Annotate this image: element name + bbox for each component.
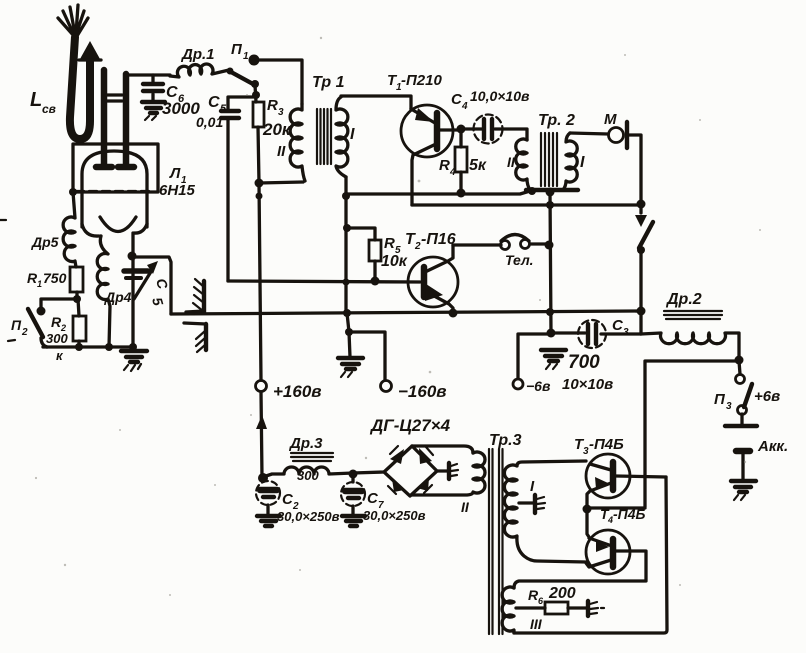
- svg-text:Тр 1: Тр 1: [312, 74, 345, 91]
- svg-text:300: 300: [46, 331, 68, 346]
- svg-text:700: 700: [568, 352, 600, 373]
- wire C5/R5 to Т2 base: [228, 281, 420, 282]
- wire R3 node to Тр1 primary bottom: [259, 182, 303, 183]
- node Т1 base / C4 / R4: [457, 125, 466, 134]
- ground (-160в branch): [338, 358, 363, 369]
- svg-text:II: II: [277, 143, 286, 160]
- svg-text:30,0×250в: 30,0×250в: [277, 509, 340, 524]
- chassis bar upper: [186, 279, 204, 312]
- wire pin to C6/Др1: [126, 73, 170, 76]
- svg-text:Др5: Др5: [31, 234, 59, 250]
- capacitor C6: [143, 75, 200, 118]
- svg-text:2: 2: [21, 327, 28, 338]
- capacitor C2 (electrolytic): [256, 481, 340, 524]
- wire node to -6в terminal: [518, 334, 551, 378]
- ground (cathode): [121, 351, 147, 362]
- microphone М: [604, 111, 641, 204]
- diode bridge ДГ-Ц27×4: [369, 416, 451, 496]
- svg-text:300: 300: [297, 468, 319, 483]
- svg-text:ДГ-Ц27×4: ДГ-Ц27×4: [369, 416, 451, 435]
- switch П1: [227, 41, 261, 99]
- svg-text:3: 3: [623, 327, 629, 338]
- node R3 bottom: [255, 179, 264, 188]
- svg-text:2: 2: [414, 241, 421, 252]
- svg-text:3000: 3000: [162, 99, 200, 118]
- svg-text:Др4: Др4: [104, 289, 132, 305]
- ground (C3 node): [541, 350, 566, 361]
- transistor Т4 П4Б: [586, 506, 646, 580]
- svg-text:30,0×250в: 30,0×250в: [363, 508, 426, 523]
- wire node down to Т4: [587, 509, 589, 537]
- svg-text:L: L: [30, 89, 42, 111]
- svg-text:5к: 5к: [469, 157, 487, 174]
- choke Др1: [170, 46, 229, 77]
- svg-text:1: 1: [243, 51, 249, 62]
- wire to -160в terminal: [349, 332, 385, 380]
- svg-text:R: R: [439, 157, 450, 174]
- ground (battery): [731, 481, 756, 492]
- svg-text:10к: 10к: [381, 253, 408, 270]
- wire C1 node to chassis rail: [133, 257, 171, 314]
- svg-text:10,0×10в: 10,0×10в: [470, 88, 530, 104]
- Тр3 winding I: [504, 461, 586, 562]
- svg-text:4: 4: [461, 101, 468, 112]
- wire bottom cathode rail: [43, 345, 134, 348]
- svg-text:I: I: [350, 126, 355, 143]
- resistor R2: [51, 299, 86, 347]
- svg-text:750: 750: [43, 270, 67, 286]
- chassis (bridge output): [437, 463, 458, 479]
- svg-text:М: М: [604, 111, 617, 128]
- svg-text:2: 2: [60, 323, 66, 333]
- svg-text:3: 3: [278, 107, 284, 118]
- switch П3: [714, 361, 780, 424]
- wire Т3 base feedback loop: [514, 477, 667, 633]
- svg-text:1: 1: [37, 279, 42, 289]
- node C7: [349, 470, 358, 479]
- svg-text:II: II: [507, 154, 516, 170]
- grid capacitor plates inside: [106, 95, 122, 101]
- svg-text:R: R: [267, 97, 278, 114]
- terminal -6в: [513, 379, 523, 389]
- wire Тр2 bottom down to C3 node: [550, 192, 551, 333]
- wire Др3 to bridge: [353, 472, 384, 473]
- svg-text:0,01: 0,01: [196, 114, 223, 130]
- wire Тр1 winding I bottom down: [344, 177, 347, 313]
- switch (М circuit tumbler): [635, 205, 653, 311]
- wire bridge top to Тр3 winding II: [412, 446, 473, 453]
- ground (C6): [142, 102, 165, 113]
- svg-text:Тр. 2: Тр. 2: [538, 112, 575, 129]
- svg-text:-П16: -П16: [421, 231, 456, 248]
- svg-text:3: 3: [726, 401, 732, 412]
- Тр2 bottom bar: [526, 188, 578, 192]
- wire to ground near -160в: [347, 313, 350, 357]
- svg-text:6Н15: 6Н15: [159, 182, 196, 199]
- resistor R6 200: [516, 585, 586, 614]
- svg-text:+6в: +6в: [754, 388, 780, 405]
- svg-text:R: R: [384, 235, 395, 252]
- wire switch node down to Др2: [639, 311, 642, 334]
- transistor Т3 П4Б: [574, 436, 666, 508]
- svg-text:−6в: −6в: [526, 378, 551, 394]
- svg-text:к: к: [56, 348, 64, 363]
- capacitor C4 (electrolytic): [451, 88, 530, 144]
- svg-text:-П210: -П210: [401, 72, 442, 89]
- resistor R3: [253, 97, 292, 160]
- svg-text:+160в: +160в: [273, 382, 322, 401]
- svg-text:П: П: [714, 391, 726, 408]
- transistor Т2 П16: [405, 231, 458, 313]
- choke Др3: [263, 435, 353, 483]
- choke Др2: [641, 291, 739, 358]
- transformer Тр3 core: [489, 432, 522, 634]
- svg-text:Акк.: Акк.: [757, 438, 788, 455]
- Тр2 winding II (left): [516, 139, 530, 190]
- capacitor C5: [196, 94, 256, 281]
- wire R1 to node: [75, 292, 78, 299]
- chassis bar lower: [184, 323, 206, 352]
- svg-text:-П4Б: -П4Б: [613, 506, 646, 522]
- wire Т4 base to winding III top: [514, 581, 646, 588]
- svg-text:10×10в: 10×10в: [562, 376, 613, 393]
- svg-text:Л: Л: [169, 165, 181, 182]
- wire Тр1/Тр2 bottom rail: [346, 191, 530, 194]
- svg-text:Др.3: Др.3: [288, 435, 323, 452]
- terminal -160в: [381, 381, 392, 392]
- wire +160в down to filter node with arrow: [261, 392, 262, 477]
- svg-text:II: II: [461, 499, 470, 515]
- svg-text:П: П: [231, 41, 243, 58]
- capacitor C3 (electrolytic): [551, 317, 641, 393]
- node Т3 emitter / Т4 collector: [583, 505, 592, 514]
- resistor R4: [439, 129, 487, 193]
- resistor R5: [347, 228, 408, 281]
- tube Л1 6Н15: [73, 70, 196, 236]
- stray mark left edge: [0, 220, 15, 341]
- Тр1 winding II (left): [290, 104, 305, 181]
- transistor Т1 П210: [387, 72, 458, 205]
- tube pin (anode): [96, 70, 112, 167]
- Тр3 winding III: [502, 587, 543, 633]
- svg-text:200: 200: [548, 585, 576, 602]
- chassis (Тр3 winding I centre tap): [519, 495, 545, 513]
- wire П1 to R3: [255, 85, 256, 102]
- node Т2 emitter: [449, 309, 458, 318]
- node chassis rail / Тр1 vertical: [343, 309, 351, 317]
- wire chassis rail (long horizontal): [171, 311, 641, 314]
- wire Тр2 winding I top to М: [570, 133, 608, 134]
- svg-text:20к: 20к: [262, 120, 292, 139]
- wire collector rail (Т1): [412, 203, 641, 206]
- svg-text:-П4Б: -П4Б: [589, 436, 624, 453]
- svg-text:Др.1: Др.1: [180, 46, 215, 63]
- transformer Тр2: [507, 112, 585, 197]
- ground (C2): [257, 516, 280, 526]
- svg-text:III: III: [530, 616, 543, 632]
- coil Lсв (magnetic antenna loop): [30, 37, 101, 139]
- Тр1 core: [317, 109, 331, 164]
- Тр2 winding I (right): [563, 133, 577, 190]
- Тр2 core: [541, 133, 557, 186]
- svg-text:св: св: [42, 102, 56, 116]
- svg-text:Др.2: Др.2: [665, 291, 702, 308]
- wire Тр1 winding I top to Т1 emitter: [341, 96, 411, 109]
- antenna WA1: [58, 5, 88, 38]
- svg-text:С: С: [153, 277, 171, 292]
- Тр1 winding I (right): [336, 97, 348, 177]
- tube pin (grid): [118, 74, 134, 167]
- choke Др4: [97, 236, 131, 347]
- svg-text:Тел.: Тел.: [505, 252, 534, 268]
- svg-text:5: 5: [149, 296, 167, 308]
- headphones Тел: [453, 235, 546, 269]
- battery Акк: [725, 426, 788, 479]
- wire R3 down to +160в: [258, 127, 261, 380]
- switch П2: [11, 299, 77, 363]
- wire +6в rail to output stage: [588, 361, 739, 508]
- ground (C7): [342, 516, 365, 526]
- resistor R1 750: [27, 267, 83, 292]
- capacitor C7 (electrolytic): [341, 474, 426, 523]
- terminal +160в: [256, 381, 267, 392]
- chassis (R6): [588, 601, 604, 616]
- svg-text:I: I: [530, 478, 535, 495]
- svg-text:6: 6: [538, 596, 544, 606]
- svg-text:I: I: [580, 154, 585, 171]
- trimmer capacitor C1: [124, 261, 171, 308]
- svg-text:−160в: −160в: [398, 382, 447, 401]
- svg-text:4: 4: [449, 167, 456, 178]
- wire tube cathode down: [131, 233, 134, 347]
- transformer Тр3 winding II: [411, 452, 485, 515]
- wire П1 to Тр1 primary top: [257, 60, 302, 104]
- svg-text:П: П: [11, 317, 22, 333]
- svg-text:С: С: [208, 94, 220, 111]
- choke Др5: [31, 188, 77, 267]
- transformer Тр1: [290, 74, 355, 181]
- svg-text:Тр.3: Тр.3: [489, 432, 522, 449]
